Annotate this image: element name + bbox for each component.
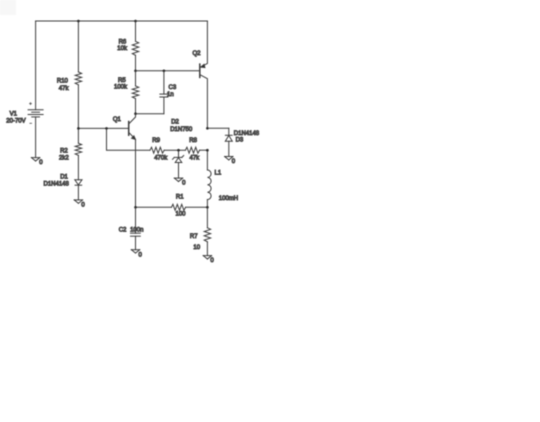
- svg-text:47k: 47k: [190, 155, 201, 161]
- svg-text:L1: L1: [215, 171, 222, 177]
- svg-text:D2: D2: [171, 120, 179, 126]
- svg-text:47k: 47k: [59, 86, 70, 92]
- svg-text:D3: D3: [236, 137, 244, 143]
- svg-text:2k2: 2k2: [59, 156, 69, 162]
- svg-text:D1N4148: D1N4148: [44, 181, 70, 187]
- svg-text:Q1: Q1: [113, 117, 122, 123]
- svg-text:20-70V: 20-70V: [6, 119, 25, 125]
- svg-text:R8: R8: [189, 138, 197, 144]
- svg-text:100: 100: [176, 212, 187, 218]
- svg-text:C3: C3: [169, 85, 177, 91]
- svg-text:100n: 100n: [130, 228, 143, 234]
- svg-text:1n: 1n: [167, 92, 174, 98]
- svg-text:R6: R6: [119, 40, 127, 46]
- svg-text:Q2: Q2: [193, 51, 202, 57]
- svg-text:100mH: 100mH: [219, 196, 238, 202]
- svg-text:C2: C2: [119, 228, 127, 234]
- svg-text:D1N4148: D1N4148: [234, 131, 260, 137]
- svg-text:470k: 470k: [154, 155, 168, 161]
- svg-text:D1: D1: [60, 175, 68, 181]
- svg-text:V1: V1: [10, 111, 18, 117]
- svg-text:R5: R5: [118, 78, 126, 84]
- svg-text:R10: R10: [57, 78, 69, 84]
- svg-text:10: 10: [193, 245, 200, 251]
- svg-text:R7: R7: [190, 234, 198, 240]
- svg-text:100k: 100k: [114, 85, 128, 91]
- svg-text:10k: 10k: [117, 46, 128, 52]
- svg-text:D1N750: D1N750: [170, 127, 193, 133]
- svg-text:R9: R9: [152, 138, 160, 144]
- svg-text:R1: R1: [176, 195, 184, 201]
- svg-text:R2: R2: [60, 149, 68, 155]
